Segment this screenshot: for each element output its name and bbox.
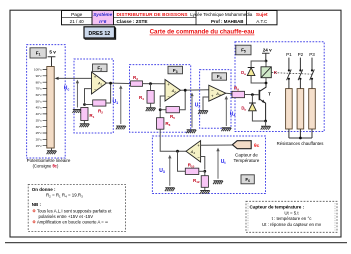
block label F1 [30,48,46,58]
wire A1 output [107,82,131,85]
resistor R2 [93,100,106,106]
resistor R12 [201,176,208,188]
ground U4 ref [221,128,231,131]
node supply node [265,60,268,63]
wire R5 to output [179,90,185,110]
svg-text:θc: θc [254,143,260,149]
svg-text:P3: P3 [309,52,315,57]
svg-text:Page: Page [71,12,83,18]
svg-text:T: T [268,91,271,96]
svg-text:n°6: n°6 [99,19,107,24]
svg-text:50°c: 50°c [36,99,43,103]
wire node to R5 [160,109,166,111]
svg-text:+: + [94,75,97,80]
svg-text:−: − [94,87,97,92]
svg-text:70°c: 70°c [36,87,43,91]
svg-text:(Consigne θc): (Consigne θc) [33,163,59,168]
svg-text:45°c: 45°c [36,106,43,110]
data box: Capteur de temperature [246,201,337,232]
svg-text:25°c: 25°c [36,131,43,135]
functional block frame F2 adaptation [74,59,113,133]
wire node to R12 [204,171,206,175]
block label F5 [236,45,251,55]
common bus of heaters [289,137,312,139]
wire K to collector [265,78,267,83]
svg-text:−: − [167,94,170,99]
block label F4 [212,73,227,80]
op-amp A2 [165,80,181,102]
voltage arrow Ut [217,150,219,179]
wire R2 to output [106,83,111,103]
bottom page edge line [5,242,347,244]
ground U2 ref [186,130,196,133]
svg-text:Capteur de température :: Capteur de température : [250,205,305,210]
temperature sensor [232,141,251,149]
ground R1 [80,124,90,127]
resistor R3 [131,81,143,86]
svg-text:+: + [167,82,170,87]
svg-text:Carte de commande du chauffe-e: Carte de commande du chauffe-eau [150,29,255,36]
resistor R10 [185,168,199,174]
svg-text:5 v: 5 v [49,49,56,54]
svg-text:Température: Température [234,158,260,163]
node emitter node [264,120,267,123]
svg-text:On donne :: On donne : [32,187,56,192]
svg-text:30°c: 30°c [36,125,43,129]
block label F2 [93,64,108,72]
wire R3 to A2+ [143,83,166,85]
svg-text:Lycée Technique Mohammedia: Lycée Technique Mohammedia [190,12,253,17]
potentiometer wiper arrow [55,77,59,80]
svg-text:−: − [211,88,214,93]
wire R10 to node [199,170,205,172]
ground Uc ref [73,110,83,113]
node A2 out [184,89,187,92]
svg-text:100°c: 100°c [34,68,42,72]
svg-text:40°c: 40°c [36,112,43,116]
op-amp A4 [186,141,201,162]
wire Da to collector [251,76,266,83]
svg-text:Résistances chauffantes: Résistances chauffantes [277,141,324,146]
wire R1 to ground [83,121,85,124]
node collector node [265,82,268,85]
svg-text:Classe : 2STE: Classe : 2STE [117,19,148,24]
mechanical link dashed [272,73,313,75]
svg-text:A.T.C: A.T.C [256,19,268,24]
wire supply to Da [251,61,266,67]
block label F3 [168,66,183,74]
wire node to R4 [150,84,152,91]
ground A3 plus [198,111,208,114]
functional block frame F4 comparateur [200,70,231,129]
ground pot [47,151,57,154]
wire wiper to A1+ [58,77,91,79]
wire node to R6 [159,111,161,118]
node R3-R4 node [149,82,152,85]
svg-text:Ut : réponse du capteur en mv: Ut : réponse du capteur en mv [262,222,322,227]
node A2 fb node [159,108,162,111]
functional block frame F1 consigne [27,45,66,158]
svg-text:NB :: NB : [32,202,42,207]
svg-text:DISTRIBUTEUR DE BOISSONS: DISTRIBUTEUR DE BOISSONS [117,12,188,17]
wire R9 to base [245,94,260,96]
potentiometer scale labels [34,68,42,148]
functional block frame F5 puissance [235,42,324,132]
node A4 fb node [203,170,206,173]
wire A3 + to ground [203,97,209,110]
resistor R5 [166,107,179,113]
ground emitter [261,126,271,129]
voltage arrow Uc [76,82,78,107]
wire node to R2 [85,104,93,106]
svg-text:Capteur de: Capteur de [235,152,258,157]
wire node to Db [251,95,253,103]
svg-text:P1: P1 [286,52,292,57]
svg-text:Ut = 5.t: Ut = 5.t [284,210,299,215]
op-amp A1 [92,72,107,94]
functional block frame F6 mesure [152,136,265,194]
diode Db (base clamp) [249,102,256,104]
svg-text:Sujet: Sujet [256,12,268,18]
potentiometer scale ticks [43,70,47,146]
wire emitter to ground [265,121,267,126]
resistor R9 [232,91,245,97]
svg-text:90°c: 90°c [36,74,43,78]
svg-text:+: + [211,94,214,99]
block label F6 [241,175,254,184]
diode Da (freewheel) [248,67,255,69]
svg-text:20°c: 20°c [36,137,43,141]
svg-text:15°c: 15°c [36,144,43,148]
wire A2 output [181,89,209,91]
voltage arrow U4 [225,98,227,126]
wire Db to emitter [252,111,265,121]
functional block frame F3 comparaison [130,65,191,133]
header table [62,11,278,25]
heating resistor P2 [297,89,304,129]
wire output to R10 [178,151,186,171]
potentiometer body (Consigne) [47,67,54,149]
heating resistor P1 [286,89,293,129]
wire A3 output [226,92,232,95]
node A1 fb node [83,103,86,106]
wire A4+ to sensor [201,144,233,146]
svg-text:DRES 12: DRES 12 [88,31,110,37]
svg-text:−: − [197,155,200,160]
svg-text:+: + [197,143,200,148]
svg-text:Système: Système [93,12,112,17]
node heater common [299,137,302,140]
svg-text:80°c: 80°c [36,80,43,84]
transistor T [259,83,266,121]
wire supply to K [265,61,267,67]
wire R12 to ground [204,187,206,190]
wire A4 inverting input [201,157,205,170]
svg-text:t : température en °c: t : température en °c [272,216,313,221]
resistor R6 [157,118,164,130]
ground R4 [146,108,156,111]
wire A1 inverting input [85,89,92,103]
wire R6 to A4 output (U3 path) [160,129,186,151]
wire pot bottom to ground [51,148,53,151]
svg-text:Potentiomètre linéaire: Potentiomètre linéaire [27,158,71,163]
ground U1 ref [116,126,126,129]
wire A2 inverting input [160,96,165,108]
voltage arrow U3 [169,157,171,186]
ground Ut ref [213,181,223,184]
relay coil K [261,67,271,78]
op-amp A3 [209,85,226,101]
DRES 12 tag [84,27,115,38]
node A1 out [109,82,112,85]
voltage arrow U1 [120,88,122,124]
svg-text:24 v: 24 v [263,48,272,53]
node base node [251,93,254,96]
ground U3 ref [165,188,175,191]
svg-text:21 / 40: 21 / 40 [70,19,84,24]
resistor R1 [81,108,88,121]
ground R12 [200,191,210,194]
svg-text:polarisés entre +15V et -15V: polarisés entre +15V et -15V [39,214,94,219]
svg-text:60°c: 60°c [36,93,43,97]
wire R4 to ground [150,103,152,107]
voltage arrow U2 [191,95,193,128]
data box: On donne [28,184,125,231]
node A4 out node [176,150,179,153]
svg-text:35°c: 35°c [36,118,43,122]
resistor R4 [147,90,154,103]
svg-text:Prof : MAHBAB: Prof : MAHBAB [211,19,244,24]
heating resistor P3 [309,89,316,129]
svg-text:❖ Amplification en boucle ouve: ❖ Amplification en boucle ouverte A = ∞ [32,220,108,225]
svg-text:P2: P2 [298,52,304,57]
